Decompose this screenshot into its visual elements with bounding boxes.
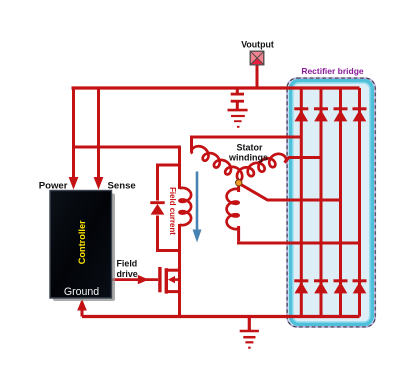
controller U1 box — [50, 191, 115, 302]
capacitor C1 — [231, 88, 244, 109]
arrow field current direction — [193, 172, 202, 243]
node star point — [236, 180, 242, 186]
diode D3 (top row) — [334, 109, 348, 122]
stator winding L2 — [237, 154, 286, 181]
svg-text:Stator: Stator — [236, 143, 263, 153]
rectifier bridge box — [287, 78, 375, 327]
wire top output bus — [72, 86, 360, 89]
wire Power feed — [69, 87, 79, 190]
wire ground to controller (arrow) — [77, 299, 87, 317]
wire Sense feed — [94, 87, 104, 190]
ground (output filter) — [228, 110, 248, 127]
wire field to drain — [178, 165, 181, 189]
svg-text:Controller: Controller — [77, 220, 87, 264]
label Field drive — [117, 259, 138, 280]
wire phase B to bridge — [285, 158, 322, 163]
wire drain/source vertical — [178, 249, 181, 318]
wire phase C to bridge — [237, 185, 360, 243]
wire bridge column 4 — [358, 88, 361, 317]
stator winding L1 — [191, 146, 242, 181]
stator winding L3 — [227, 189, 239, 229]
svg-text:Rectifier bridge: Rectifier bridge — [301, 66, 364, 76]
svg-text:Ground: Ground — [64, 286, 99, 298]
svg-text:windings: windings — [228, 153, 268, 163]
svg-text:Field current: Field current — [168, 187, 177, 235]
wire bottom ground bus — [82, 315, 360, 318]
flyback diode D9 — [150, 203, 164, 215]
port Voutput — [250, 51, 264, 65]
wire neutral to bridge — [240, 184, 341, 200]
wire to field winding — [72, 147, 180, 167]
diode D2 (top row) — [314, 109, 328, 122]
diode D4 (top row) — [353, 109, 367, 122]
wire Voutput stub — [256, 64, 259, 88]
wire phase A to bridge — [192, 137, 302, 153]
svg-text:Field: Field — [117, 259, 138, 269]
svg-text:drive: drive — [117, 269, 138, 279]
wire field branch frame — [158, 165, 180, 251]
diode D7 (bottom row) — [334, 281, 348, 294]
wire bridge column 1 — [300, 88, 303, 317]
svg-text:Voutput: Voutput — [241, 39, 274, 49]
wire bridge column 2 — [320, 88, 323, 317]
diode D6 (bottom row) — [314, 281, 328, 294]
wire gate drive with arrow — [112, 275, 159, 284]
diode D8 (bottom row) — [353, 281, 367, 294]
diode D5 (bottom row) — [294, 281, 308, 294]
diode D1 (top row) — [294, 109, 308, 122]
field winding L4 — [180, 188, 192, 225]
ground (chassis) — [240, 317, 259, 348]
wire bridge column 3 — [339, 88, 342, 317]
transistor Q1 field drive MOSFET — [158, 267, 179, 294]
label Stator windings — [228, 143, 268, 163]
